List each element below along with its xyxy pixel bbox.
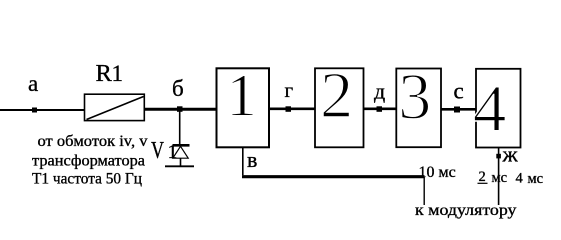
- svg-text:к модулятору: к модулятору: [415, 202, 517, 219]
- wire block4 output down to modulator: [498, 148, 500, 206]
- node a: [32, 108, 37, 113]
- wire corner down to modulator text: [423, 177, 425, 205]
- node b label: [172, 76, 184, 101]
- svg-text:б: б: [172, 76, 184, 101]
- diode V1 reference label: [151, 138, 178, 164]
- svg-text:мс: мс: [492, 170, 508, 186]
- svg-text:мс: мс: [439, 164, 456, 181]
- note text: T1 frequency 50 Hz: [32, 171, 142, 188]
- wire block2 to block3: [364, 108, 397, 111]
- svg-text:10: 10: [419, 164, 435, 181]
- node zh label: [502, 142, 519, 167]
- node g (г): [286, 106, 292, 112]
- block 2: [315, 59, 364, 147]
- ground terminal line: [165, 165, 194, 167]
- block 3: [396, 61, 441, 148]
- text to modulator: [415, 202, 517, 219]
- node zh (ж): [496, 154, 501, 159]
- node g label: [285, 78, 294, 102]
- svg-text:4: 4: [473, 72, 507, 146]
- wire block3 to block4: [441, 108, 476, 111]
- wire block1 output v (в) down: [242, 148, 244, 176]
- svg-text:в: в: [247, 147, 257, 172]
- svg-text:2: 2: [320, 59, 353, 132]
- svg-text:мс: мс: [528, 171, 544, 187]
- wire label 10 ms: [419, 164, 456, 181]
- svg-text:трансформатора: трансформатора: [32, 153, 145, 170]
- note text: transformer: [32, 153, 145, 170]
- wire resistor to block 1: [144, 108, 216, 111]
- node c (с): [454, 107, 460, 113]
- zener diode V1: [173, 145, 190, 166]
- block 1: [217, 63, 270, 148]
- svg-text:3: 3: [398, 61, 431, 134]
- node c label: [454, 79, 464, 104]
- svg-text:V: V: [151, 138, 164, 164]
- wire node b down to diode V1: [179, 110, 181, 145]
- svg-text:1: 1: [168, 141, 178, 163]
- svg-text:Т1 частота 50 Гц: Т1 частота 50 Гц: [32, 171, 142, 188]
- wire label 2 ms 4 ms: [478, 169, 544, 187]
- svg-text:1: 1: [227, 63, 257, 129]
- node a label: [28, 71, 38, 96]
- node b (б): [177, 106, 183, 112]
- resistor R1 value label: [96, 60, 124, 87]
- svg-text:ж: ж: [502, 142, 519, 167]
- node d (д): [377, 106, 383, 112]
- wire input segment to node a: [0, 109, 85, 111]
- node v label: [247, 147, 257, 172]
- resistor R1: [85, 94, 145, 120]
- svg-text:2: 2: [479, 169, 486, 185]
- svg-text:с: с: [454, 79, 464, 104]
- svg-text:R: R: [96, 60, 113, 87]
- svg-text:а: а: [28, 71, 38, 96]
- svg-text:1: 1: [112, 61, 124, 86]
- wire thick bottom bus to modulator: [242, 175, 425, 178]
- svg-text:г: г: [285, 78, 294, 102]
- note text: from windings IV, V: [38, 133, 148, 150]
- svg-text:от обмоток iv, v: от обмоток iv, v: [38, 133, 148, 150]
- wire block1 to block2: [270, 108, 315, 111]
- block 4: [473, 69, 521, 148]
- node d label: [374, 79, 385, 104]
- svg-text:4: 4: [516, 171, 524, 187]
- svg-text:д: д: [374, 79, 385, 104]
